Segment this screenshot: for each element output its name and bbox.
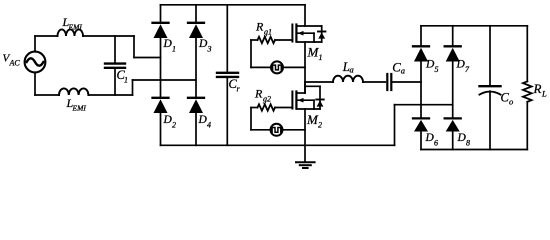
svg-text:D: D [457,132,467,144]
label D5 [425,59,439,75]
inductor La [333,76,385,82]
label Cr [229,77,241,94]
resistor Rg1 [251,37,293,43]
svg-text:a: a [401,66,405,76]
diode D6 [413,118,429,131]
label RL [533,81,548,99]
svg-text:D: D [198,114,208,126]
svg-text:4: 4 [207,121,211,130]
label D6 [425,132,439,148]
wire input bridge left leg [160,5,162,146]
label V_AC [3,53,21,68]
label D8 [457,132,471,148]
label La [342,60,354,75]
wire return path [395,105,453,146]
capacitor Cr [217,5,238,146]
wire output bridge right leg [452,26,454,150]
svg-text:r: r [237,85,241,94]
label M2 [306,112,322,130]
svg-text:3: 3 [207,45,212,54]
wire gate loop 2 left [250,108,252,130]
diode D2 [153,98,169,113]
wire bottom rail [161,144,395,146]
label D7 [456,59,471,75]
label M1 [307,45,323,63]
svg-text:1: 1 [124,76,128,85]
wire bottom rail output bridge [421,149,527,151]
ground [296,145,315,168]
svg-text:2: 2 [318,121,322,130]
svg-text:R: R [254,87,263,101]
label L_EMI bottom [66,96,87,113]
capacitor Co [480,26,501,150]
label Ca [392,61,405,76]
label C1 [117,68,129,85]
label Co [501,91,514,107]
svg-text:a: a [350,65,354,75]
gate driver source 2 [251,124,305,136]
svg-text:g2: g2 [263,95,271,104]
inductor L_EMI bottom [59,88,88,95]
capacitor Ca [387,74,421,90]
svg-text:L: L [541,89,547,99]
diode D3 [188,23,204,38]
svg-text:R: R [255,20,264,34]
capacitor C1 [105,36,125,95]
svg-text:EMI: EMI [72,104,87,113]
label D3 [198,38,212,54]
svg-text:1: 1 [172,45,176,54]
label D4 [198,114,212,130]
diode D1 [153,23,169,38]
wire gate loop 1 left [250,40,252,67]
svg-text:D: D [163,38,173,50]
svg-text:6: 6 [434,139,438,148]
diode D4 [188,98,204,113]
mosfet M2 [292,82,320,145]
svg-text:o: o [509,97,513,107]
wire output bridge left leg [420,26,422,150]
svg-text:D: D [163,114,173,126]
ac source V_AC [25,36,46,95]
resistor RL [523,26,532,150]
label L_EMI top [62,15,83,32]
wire input bridge right leg [195,5,197,146]
diode D7 [445,46,461,61]
wire bottom AC [35,80,196,95]
diode D8 [445,118,461,131]
inductor L_EMI top [58,29,84,36]
svg-text:R: R [533,81,542,96]
svg-text:AC: AC [9,59,21,68]
body diode of M1 [318,26,325,42]
svg-text:7: 7 [465,65,470,74]
svg-text:g1: g1 [264,28,272,37]
label D1 [163,38,177,54]
svg-text:D: D [425,132,435,144]
wire top rail output bridge [421,25,527,27]
mosfet M1 [292,5,321,93]
svg-text:D: D [456,59,466,71]
body diode of M2 [305,86,324,109]
label Rg2 [254,87,271,104]
svg-text:2: 2 [172,121,176,130]
wire top rail input bridge [161,4,306,6]
svg-text:1: 1 [319,53,323,62]
svg-text:D: D [425,59,435,71]
svg-text:8: 8 [466,139,470,148]
resistor Rg2 [251,104,293,110]
svg-text:EMI: EMI [68,23,83,32]
wire node A (switch node) to La [305,81,333,83]
svg-text:5: 5 [435,65,439,74]
diode D5 [413,46,429,61]
wire top AC [35,36,161,58]
label D2 [163,114,177,130]
gate driver source 1 [251,61,305,73]
label Rg1 [255,20,272,37]
svg-text:D: D [198,38,208,50]
